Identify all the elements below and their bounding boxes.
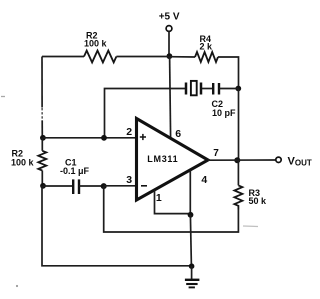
resistor R2 (left, 100 k) xyxy=(38,151,46,171)
wire: pins 1/4 down to ground xyxy=(190,215,191,266)
junction: C1 / ground-return node xyxy=(40,183,46,189)
junction: pin 2 / crystal feedback node xyxy=(101,135,107,141)
wire: pin 1 xyxy=(155,190,191,213)
junction: ground node xyxy=(189,263,195,269)
wire: output rail (crystal node to output node) xyxy=(238,89,240,161)
wire: C2 to output rail xyxy=(219,88,239,90)
wire: pin 2 node to R2 (left) xyxy=(41,138,43,151)
op-amp U1 LM311 (comparator) xyxy=(137,119,209,201)
wire: pin 7 output xyxy=(208,159,276,161)
resistor R4 (2 k) xyxy=(195,52,218,62)
capacitor C2 (10 pF) xyxy=(213,83,219,95)
wire: +5V terminal to +5V node xyxy=(168,31,170,56)
junction: output node xyxy=(234,157,240,163)
+5V supply terminal xyxy=(166,26,172,32)
wire: pin 2 node riser to crystal (feedback path) xyxy=(105,89,186,138)
wire: left rail corner to R2 (top wire) xyxy=(42,56,84,58)
wire: crystal to C2 xyxy=(202,88,212,90)
svg-text:100 k: 100 k xyxy=(84,39,108,49)
resistor R3 (50 k) xyxy=(234,185,242,209)
wire: +5V node to R4 xyxy=(169,56,195,58)
svg-text:VOUT: VOUT xyxy=(288,155,312,167)
wire: output node to R3 xyxy=(237,160,239,185)
svg-text:2 k: 2 k xyxy=(200,42,214,52)
resistor R2 (top, 100 k) xyxy=(84,51,116,63)
wire: pin 2 input xyxy=(43,137,137,139)
wire: left rail (top wire down to pin 2 node) xyxy=(41,57,43,138)
wire: pin 4 xyxy=(189,170,191,215)
junction: pin 2 node at left rail xyxy=(40,135,46,141)
svg-text:6: 6 xyxy=(175,128,181,140)
output terminal xyxy=(276,157,281,162)
svg-text:10 pF: 10 pF xyxy=(212,108,236,118)
capacitor C1 (0.1 uF) xyxy=(73,179,79,194)
wire: ground return (left rail bottom and bottom wire) xyxy=(42,186,192,266)
wire: R4 to output rail (corner) xyxy=(218,57,239,89)
wire: C1 to pin 3 node xyxy=(79,185,104,187)
svg-text:100 k: 100 k xyxy=(11,158,35,168)
svg-text:7: 7 xyxy=(213,148,219,159)
svg-text:-0.1 μF: -0.1 μF xyxy=(60,166,90,176)
svg-text:1: 1 xyxy=(156,192,162,204)
svg-text:3: 3 xyxy=(126,174,132,186)
wire: feedback return (pin 3 node to R3 bottom) xyxy=(104,186,239,232)
svg-text:50 k: 50 k xyxy=(249,196,268,206)
crystal Y1 xyxy=(186,81,201,95)
junction: pins 1 and 4 xyxy=(188,212,194,218)
svg-text:LM311: LM311 xyxy=(147,154,178,164)
junction: pin 3 node xyxy=(101,183,107,189)
wire: R2 to +5V node xyxy=(116,56,169,58)
wire: +5V node down to pin 6 xyxy=(170,56,171,138)
junction: +5V node xyxy=(167,53,173,59)
ground xyxy=(185,280,200,288)
wire: C1 node to C1 xyxy=(43,185,72,187)
op-amp inverting input marking (-) xyxy=(141,185,147,187)
op-amp non-inverting input marking (+) xyxy=(140,134,146,140)
wire: R2 (left) to C1/ground node xyxy=(41,171,43,186)
svg-text:+5 V: +5 V xyxy=(159,12,180,23)
junction: crystal/C2 node on output rail xyxy=(235,86,241,92)
wire: ground stub xyxy=(191,266,193,279)
svg-text:2: 2 xyxy=(126,126,132,138)
svg-text:4: 4 xyxy=(201,174,207,186)
wire: pin 3 input xyxy=(104,185,137,187)
